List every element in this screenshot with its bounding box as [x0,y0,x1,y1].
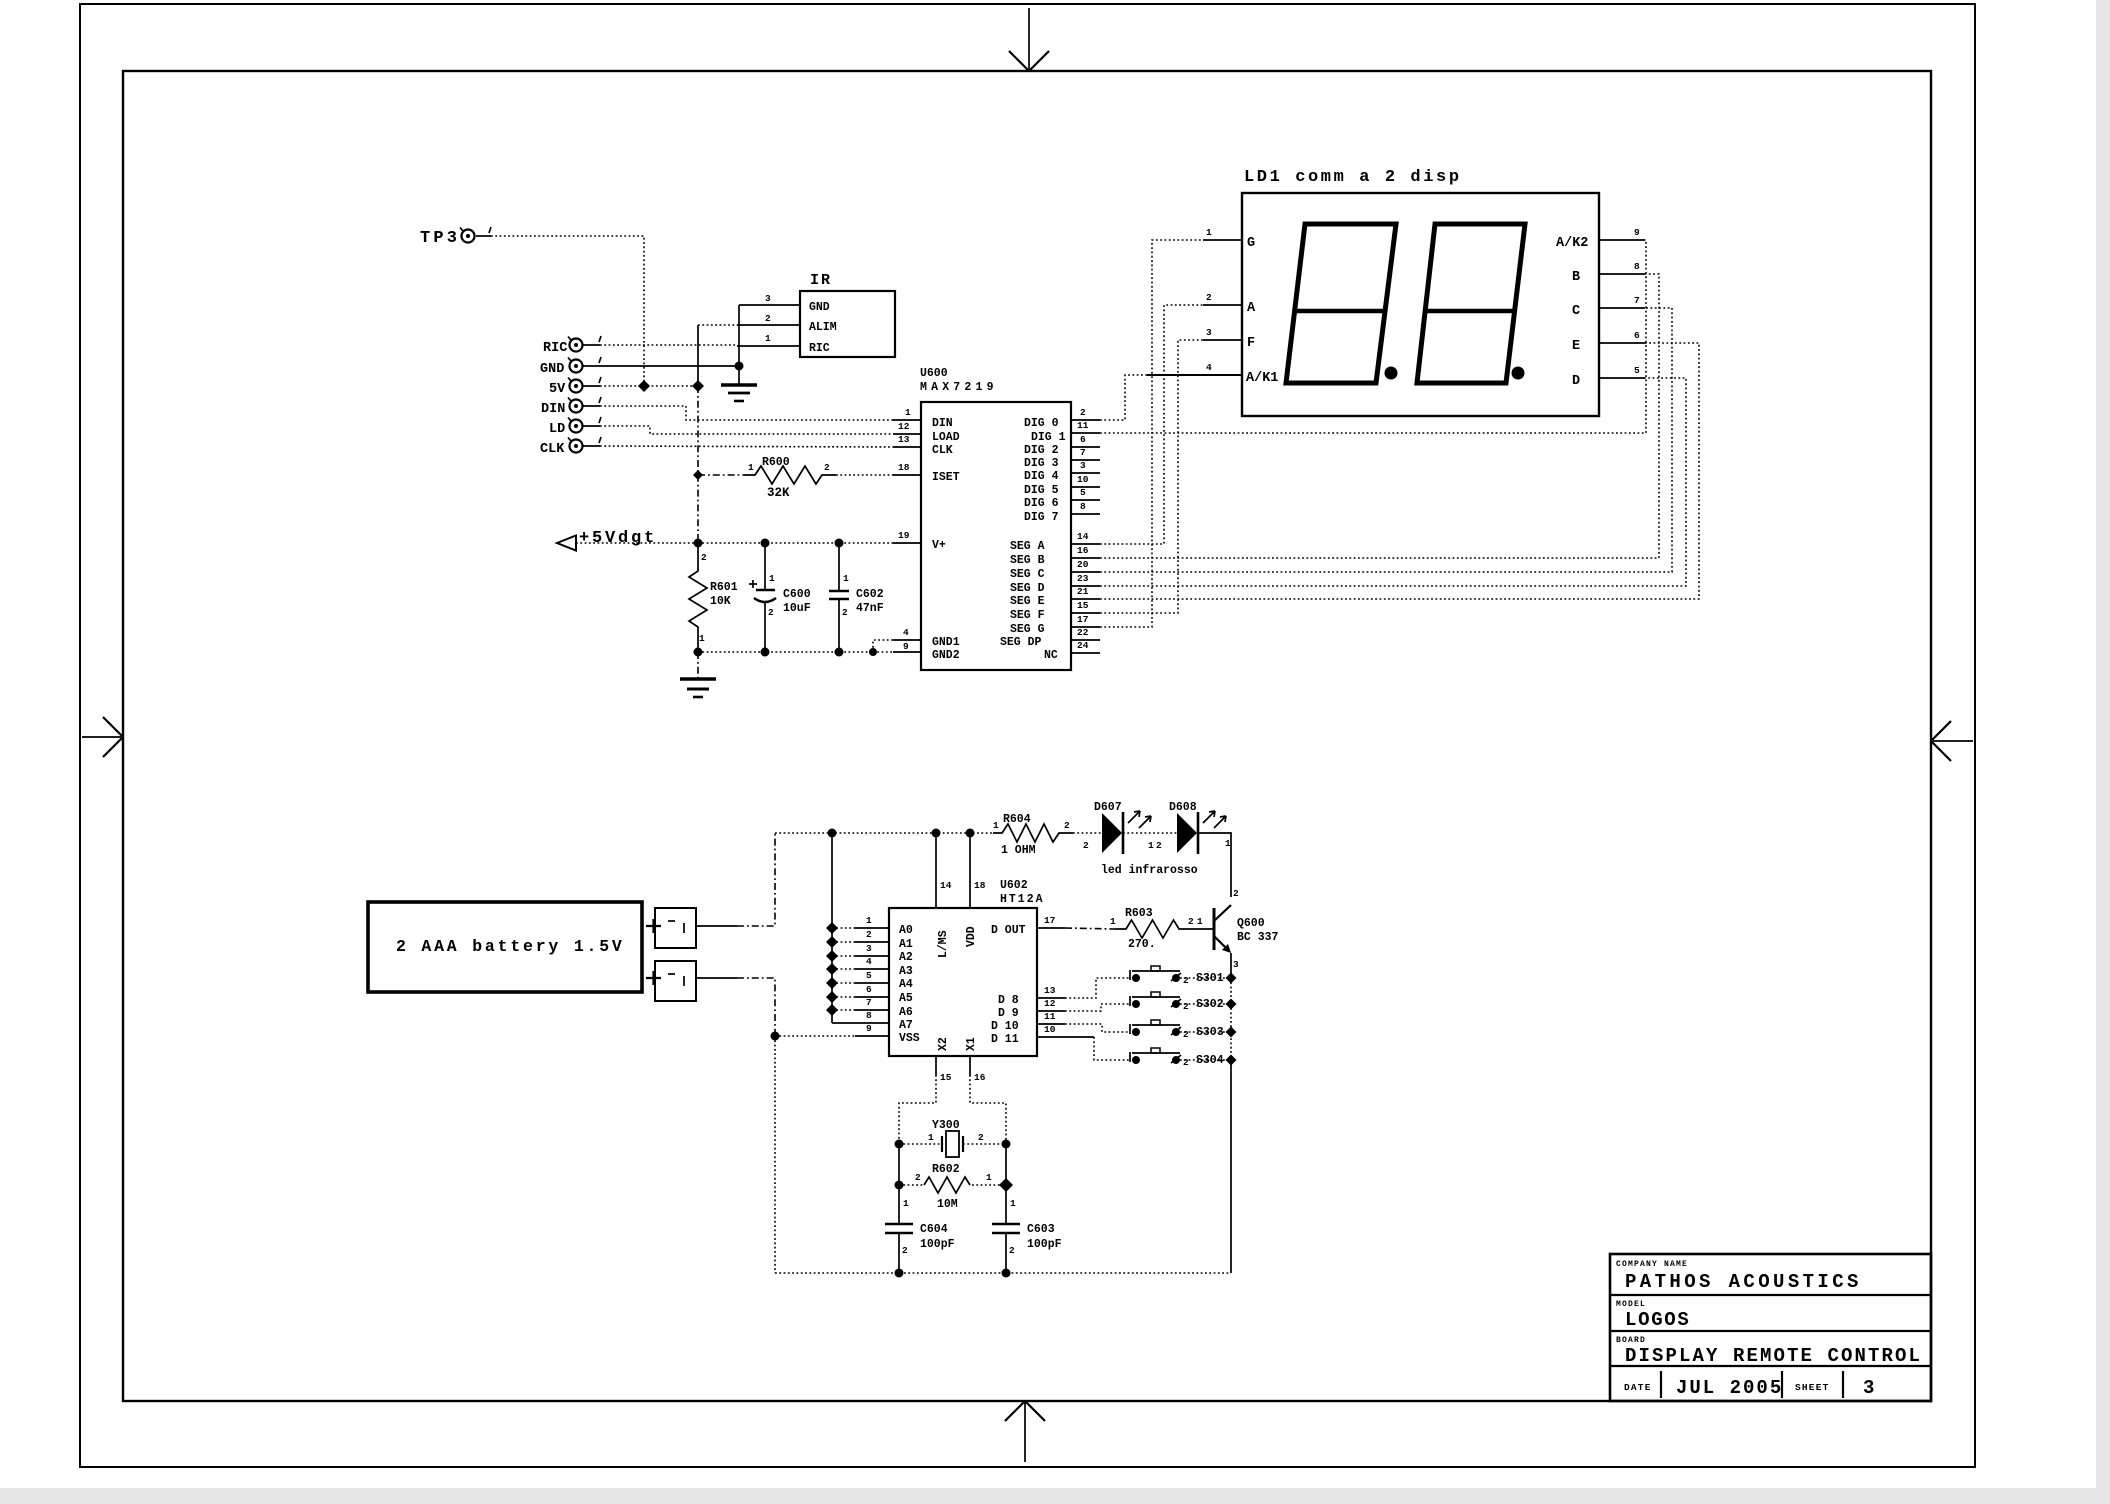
svg-text:1 OHM: 1 OHM [1001,844,1036,857]
U600 pin 24 NC [1071,640,1100,653]
svg-text:SEG E: SEG E [1010,595,1045,608]
svg-text:LD: LD [549,422,565,437]
board field [1616,1336,1922,1367]
wire battery- to VSS [696,978,775,1035]
junction S302/rail [1226,999,1237,1010]
svg-text:2: 2 [768,607,774,618]
svg-text:Q600: Q600 [1237,917,1265,930]
svg-text:D: D [1572,374,1580,389]
IR pin 1 [737,333,800,346]
U600 pin 16 SEGB [1071,545,1100,558]
7-segment digit right [1417,224,1525,383]
U602 pin 8 A7 [832,1010,889,1023]
date sheet field [1624,1371,1878,1399]
svg-text:10: 10 [1077,474,1089,485]
svg-text:BC 337: BC 337 [1237,931,1279,944]
svg-text:ISET: ISET [932,471,960,484]
U600 pin 13 CLK [893,434,921,447]
svg-text:1: 1 [928,1132,934,1143]
centering arrow bottom [1005,1401,1045,1462]
resistor R603 270 [1115,907,1214,951]
svg-text:12: 12 [1044,998,1056,1009]
svg-text:A/K2: A/K2 [1556,236,1588,251]
svg-text:U600: U600 [920,367,948,380]
svg-text:A: A [1247,301,1256,316]
svg-text:C604: C604 [920,1223,948,1236]
U600 pin 2 DIG0 [1071,407,1100,420]
svg-text:16: 16 [1077,545,1089,556]
junction R601 bottom [694,648,703,657]
svg-text:9: 9 [1634,227,1640,238]
connector CLK [540,437,601,457]
svg-text:2 AAA battery 1.5V: 2 AAA battery 1.5V [396,937,625,956]
svg-text:CLK: CLK [540,442,565,457]
svg-text:JUL 2005: JUL 2005 [1676,1377,1783,1399]
svg-text:2: 2 [1009,1245,1015,1256]
svg-text:1: 1 [765,333,771,344]
svg-text:23: 23 [1077,573,1089,584]
U602 pin 15 X2 [936,1056,952,1083]
wire SEGE to display E [1100,343,1699,599]
wire GND to ground node [600,365,739,367]
switch rail vertical [1230,978,1232,1273]
junction 5V/TP3 [638,380,650,392]
svg-text:32K: 32K [767,486,790,500]
svg-text:1: 1 [769,573,775,584]
svg-text:6: 6 [1080,434,1086,445]
svg-text:17: 17 [1077,614,1089,625]
svg-text:14: 14 [940,880,952,891]
LED D608 [1169,801,1226,854]
svg-text:2: 2 [1080,407,1086,418]
svg-text:2: 2 [915,1172,921,1183]
junction rail/R600 [693,470,703,480]
svg-text:9: 9 [866,1023,872,1034]
ground wire row [698,640,893,652]
svg-text:1: 1 [1206,227,1212,238]
wire R604 to D607 [1073,833,1102,851]
svg-text:6: 6 [1634,330,1640,341]
wire rail to R600 [698,474,744,476]
transistor Q600 BC337 [1214,905,1279,970]
svg-text:4: 4 [866,956,872,967]
svg-text:A6: A6 [899,1006,913,1019]
svg-text:13: 13 [1044,985,1056,996]
switch S301 [1130,966,1226,986]
junction S304/rail [1226,1055,1237,1066]
svg-text:NC: NC [1044,649,1058,662]
7-segment digit left [1286,224,1396,383]
svg-text:D607: D607 [1094,801,1122,814]
wire SEGF to display F [1100,340,1203,613]
svg-text:2: 2 [1183,1029,1189,1040]
wire SEGC to display C [1100,308,1672,572]
U602 address pins A0-A6 [832,915,889,1010]
svg-text:8: 8 [1634,261,1640,272]
svg-text:3: 3 [866,943,872,954]
U602 pin 17 D OUT [1037,915,1065,928]
LD1 pin 4 A/K1 [1147,362,1242,375]
svg-text:1: 1 [1148,840,1154,851]
wire TP3 to 5V net [491,236,644,384]
svg-text:SEG DP: SEG DP [1000,636,1042,649]
connector 5V [549,377,601,397]
U602 pin 9 VSS [775,1023,889,1036]
svg-text:X1: X1 [965,1037,978,1051]
centering arrow left [82,717,123,757]
svg-text:E: E [1572,339,1580,354]
svg-text:2: 2 [1156,840,1162,851]
svg-text:2: 2 [1188,916,1194,927]
svg-text:4: 4 [903,627,909,638]
junction 5V/rail [692,380,704,392]
junction R602 right [999,1178,1013,1192]
svg-text:MAX7219: MAX7219 [920,381,998,394]
crystal Y300 [899,1119,1006,1157]
U600 pin 8 DIG7 [1071,501,1100,514]
svg-text:6: 6 [866,984,872,995]
resistor R601 10K [689,543,738,652]
svg-text:8: 8 [1080,501,1086,512]
svg-text:1: 1 [748,462,754,473]
svg-text:A1: A1 [899,938,913,951]
decimal point left [1385,367,1398,380]
svg-text:2: 2 [978,1132,984,1143]
svg-text:2: 2 [1183,1001,1189,1012]
svg-text:1: 1 [986,1172,992,1183]
svg-text:3: 3 [1080,460,1086,471]
svg-text:U602: U602 [1000,879,1028,892]
svg-text:20: 20 [1077,559,1089,570]
wire SEGG to display G [1100,240,1203,627]
U600 pin 7 DIG3 [1071,447,1100,460]
svg-text:ALIM: ALIM [809,321,837,334]
svg-text:DIN: DIN [932,417,953,430]
svg-text:3: 3 [1863,1377,1878,1399]
svg-text:SEG B: SEG B [1010,554,1045,567]
svg-text:18: 18 [974,880,986,891]
junction crystal left [895,1140,904,1149]
IR receiver module [800,272,895,357]
svg-text:1: 1 [905,407,911,418]
junction C602 bottom [835,648,844,657]
title block [1610,1254,1931,1401]
IR pin 2 [737,313,800,325]
wire CLK to U600 [600,446,893,447]
svg-text:47nF: 47nF [856,602,884,615]
U600 pin 17 SEGG [1071,614,1100,627]
svg-text:led infrarosso: led infrarosso [1101,864,1198,877]
junction rail/pin18 [966,829,975,838]
svg-text:R603: R603 [1125,907,1153,920]
LD1 pin 2 A [1203,292,1242,305]
svg-text:3: 3 [765,293,771,304]
svg-text:LD1 comm a 2 disp: LD1 comm a 2 disp [1244,168,1462,187]
svg-text:9: 9 [903,641,909,652]
label led infrarosso [1101,864,1198,877]
scan gray edge bottom [0,1488,2110,1504]
IR pin 3 [739,293,800,305]
junction GND wire [735,362,744,371]
U600 pin 6 DIG2 [1071,434,1100,447]
U600 pin 15 SEGF [1071,600,1100,613]
svg-text:C600: C600 [783,588,811,601]
svg-text:10: 10 [1044,1024,1056,1035]
junction R602 left [895,1181,904,1190]
svg-text:5: 5 [1080,487,1086,498]
U600 pin 18 ISET [893,462,921,475]
wire SEGA to display A [1100,305,1203,544]
wire 5V to +5V rail [600,385,698,387]
connector DIN [541,397,601,417]
svg-text:8: 8 [866,1010,872,1021]
wire D9 to S302 [1037,998,1130,1011]
svg-text:CLK: CLK [932,444,953,457]
company name field [1616,1260,1862,1293]
U602 pin 18 VDD [970,833,986,908]
svg-text:2: 2 [1183,1057,1189,1068]
svg-text:D 11: D 11 [991,1033,1019,1046]
junction crystal right [1002,1140,1011,1149]
resistor R604 1 OHM [993,813,1073,857]
junction C600 top [761,539,770,548]
LD1 pin 3 F [1203,327,1242,340]
svg-text:A4: A4 [899,978,913,991]
wire IR GND down to ground [738,305,740,385]
svg-text:+5Vdgt: +5Vdgt [579,529,657,548]
centering arrow right [1931,721,1973,761]
decimal point right [1512,367,1525,380]
U600 pin 3 DIG4 [1071,460,1100,473]
junction C600 bottom [761,648,770,657]
connector RIC [543,336,601,356]
svg-text:A5: A5 [899,992,913,1005]
svg-text:SEG A: SEG A [1010,540,1045,553]
svg-text:D 8: D 8 [998,994,1019,1007]
svg-text:DIG 2: DIG 2 [1024,444,1059,457]
svg-text:5V: 5V [549,382,566,397]
svg-text:VSS: VSS [899,1032,920,1045]
svg-text:DIG 0: DIG 0 [1024,417,1059,430]
svg-text:SEG C: SEG C [1010,568,1045,581]
svg-text:DISPLAY REMOTE CONTROL: DISPLAY REMOTE CONTROL [1625,1345,1922,1367]
svg-text:RIC: RIC [543,341,567,356]
svg-text:22: 22 [1077,627,1089,638]
U600 pin 1 DIN [893,407,921,420]
svg-text:15: 15 [1077,600,1089,611]
svg-text:270.: 270. [1128,938,1156,951]
svg-text:HT12A: HT12A [1000,893,1045,906]
svg-text:2: 2 [866,929,872,940]
VDD rail top [775,832,993,834]
resistor R600 32K [744,456,836,500]
battery terminal bottom [646,961,696,1001]
svg-text:C603: C603 [1027,1223,1055,1236]
switch S304 [1130,1048,1226,1068]
wire D11 to S304 [1037,1024,1130,1060]
svg-text:2: 2 [1083,840,1089,851]
svg-text:16: 16 [974,1072,986,1083]
svg-text:19: 19 [898,530,910,541]
U600 pin 14 SEGA [1071,531,1100,544]
svg-text:A2: A2 [899,951,913,964]
svg-text:17: 17 [1044,915,1056,926]
svg-text:1: 1 [699,633,705,644]
svg-text:C: C [1572,304,1580,319]
svg-text:7: 7 [1080,447,1086,458]
svg-text:COMPANY NAME: COMPANY NAME [1616,1260,1688,1269]
wire X1 to crystal [970,1075,1006,1144]
wire SEGB to display B [1100,274,1659,558]
svg-text:V+: V+ [932,539,946,552]
svg-text:3: 3 [1233,959,1239,970]
svg-text:TP3: TP3 [420,229,460,248]
svg-text:DIG 3: DIG 3 [1024,457,1059,470]
svg-text:3: 3 [1206,327,1212,338]
svg-text:R602: R602 [932,1163,960,1176]
svg-text:L/MS: L/MS [937,930,950,958]
svg-text:1: 1 [1197,916,1203,927]
wire RIC to IR pin1 [600,344,737,346]
switch S302 [1130,992,1226,1012]
wire R603 to base [1188,916,1203,927]
svg-text:DIG 4: DIG 4 [1024,470,1059,483]
U600 pin 10 DIG5 [1071,474,1100,487]
svg-text:10K: 10K [710,595,731,608]
wire DIG0 to A/K1 [1100,375,1147,420]
junction rail/pin14 [932,829,941,838]
svg-text:24: 24 [1077,640,1089,651]
svg-text:A/K1: A/K1 [1246,371,1278,386]
U600 pin 5 DIG6 [1071,487,1100,500]
wire R600 to ISET [836,474,893,476]
connector LD [549,417,601,437]
svg-text:100pF: 100pF [920,1238,955,1251]
svg-text:IR: IR [810,272,832,289]
svg-text:R600: R600 [762,456,790,469]
svg-text:GND: GND [809,301,830,314]
battery terminal top [646,908,696,948]
test point TP3 [420,227,491,248]
svg-text:21: 21 [1077,586,1089,597]
svg-text:DIG 5: DIG 5 [1024,484,1059,497]
junction gnd row [869,648,877,656]
switch S303 [1130,1020,1226,1040]
address rail vertical [831,833,833,1023]
junction rail/address [828,829,837,838]
wire battery+ to VDD rail [696,833,775,926]
svg-text:LOGOS: LOGOS [1625,1309,1691,1331]
svg-text:2: 2 [701,552,707,563]
U600 pin 22 SEGDP [1071,627,1100,640]
svg-text:2: 2 [1206,292,1212,303]
U600 pin 12 LOAD [893,421,921,434]
svg-text:5: 5 [1634,365,1640,376]
svg-text:F: F [1247,336,1255,351]
svg-text:2: 2 [842,607,848,618]
svg-text:7: 7 [866,997,872,1008]
svg-text:5: 5 [866,970,872,981]
svg-text:A7: A7 [899,1019,913,1032]
svg-text:2: 2 [765,313,771,324]
svg-text:D OUT: D OUT [991,924,1026,937]
svg-text:12: 12 [898,421,910,432]
wire ALIM to +5V rail [698,324,737,326]
wire D10 to S303 [1037,1011,1130,1032]
resistor R602 10M [899,1144,1006,1211]
svg-text:1: 1 [1010,1198,1016,1209]
svg-text:1: 1 [993,820,999,831]
LD1 pin 8 B [1599,261,1645,274]
svg-text:1: 1 [866,915,872,926]
capacitor C603 100pF [992,1185,1062,1273]
wire DIN to U600 [600,406,893,420]
centering arrow top [1009,8,1049,71]
junction V+/rail [694,539,703,548]
inner drawing frame [123,71,1931,1401]
svg-text:DIG 7: DIG 7 [1024,511,1059,524]
svg-text:13: 13 [898,434,910,445]
svg-text:SEG D: SEG D [1010,582,1045,595]
IC U600 MAX7219 [920,367,1071,670]
wire D608 to collector [1198,833,1239,899]
svg-text:15: 15 [940,1072,952,1083]
capacitor C602 47nF [829,543,884,652]
U600 pin 11 DIG1 [1071,420,1100,433]
U602 pin 14 L/MS [936,833,952,908]
junction S303/rail [1226,1027,1237,1038]
wire LD to U600 [600,426,893,434]
U600 pin 4 GND1 [893,627,921,640]
svg-text:RIC: RIC [809,342,830,355]
svg-text:SEG G: SEG G [1010,623,1045,636]
U600 pin 20 SEGC [1071,559,1100,572]
svg-text:A0: A0 [899,924,913,937]
U600 pin 23 SEGD [1071,573,1100,586]
U602 pin 16 X1 [970,1056,986,1083]
svg-text:D 10: D 10 [991,1020,1019,1033]
svg-text:1: 1 [843,573,849,584]
svg-text:BOARD: BOARD [1616,1336,1646,1345]
bottom VSS rail [775,1272,1231,1274]
svg-text:2: 2 [902,1245,908,1256]
wire to ground symbol [697,652,699,679]
svg-text:GND: GND [540,362,564,377]
svg-text:DATE: DATE [1624,1382,1652,1393]
svg-text:DIN: DIN [541,402,565,417]
junction C602 top [835,539,844,548]
svg-text:10uF: 10uF [783,602,811,615]
capacitor C600 10uF [749,543,811,652]
wire +5Vdgt to V+ [576,542,893,544]
svg-text:14: 14 [1077,531,1089,542]
svg-text:11: 11 [1044,1011,1056,1022]
svg-text:D 9: D 9 [998,1007,1019,1020]
svg-text:2: 2 [1183,975,1189,986]
U600 pin 21 SEGE [1071,586,1100,599]
VSS rail vertical left [774,1036,776,1273]
junction C603 bottom [1002,1269,1011,1278]
wire D8 to S301 [1037,978,1130,998]
svg-text:1: 1 [1225,838,1231,849]
svg-text:G: G [1247,236,1255,251]
battery pack 2 AAA [368,902,642,992]
svg-text:1: 1 [903,1198,909,1209]
svg-text:SHEET: SHEET [1795,1382,1830,1393]
svg-text:2: 2 [824,462,830,473]
power arrow +5Vdgt [557,529,657,551]
svg-text:SEG F: SEG F [1010,609,1045,622]
